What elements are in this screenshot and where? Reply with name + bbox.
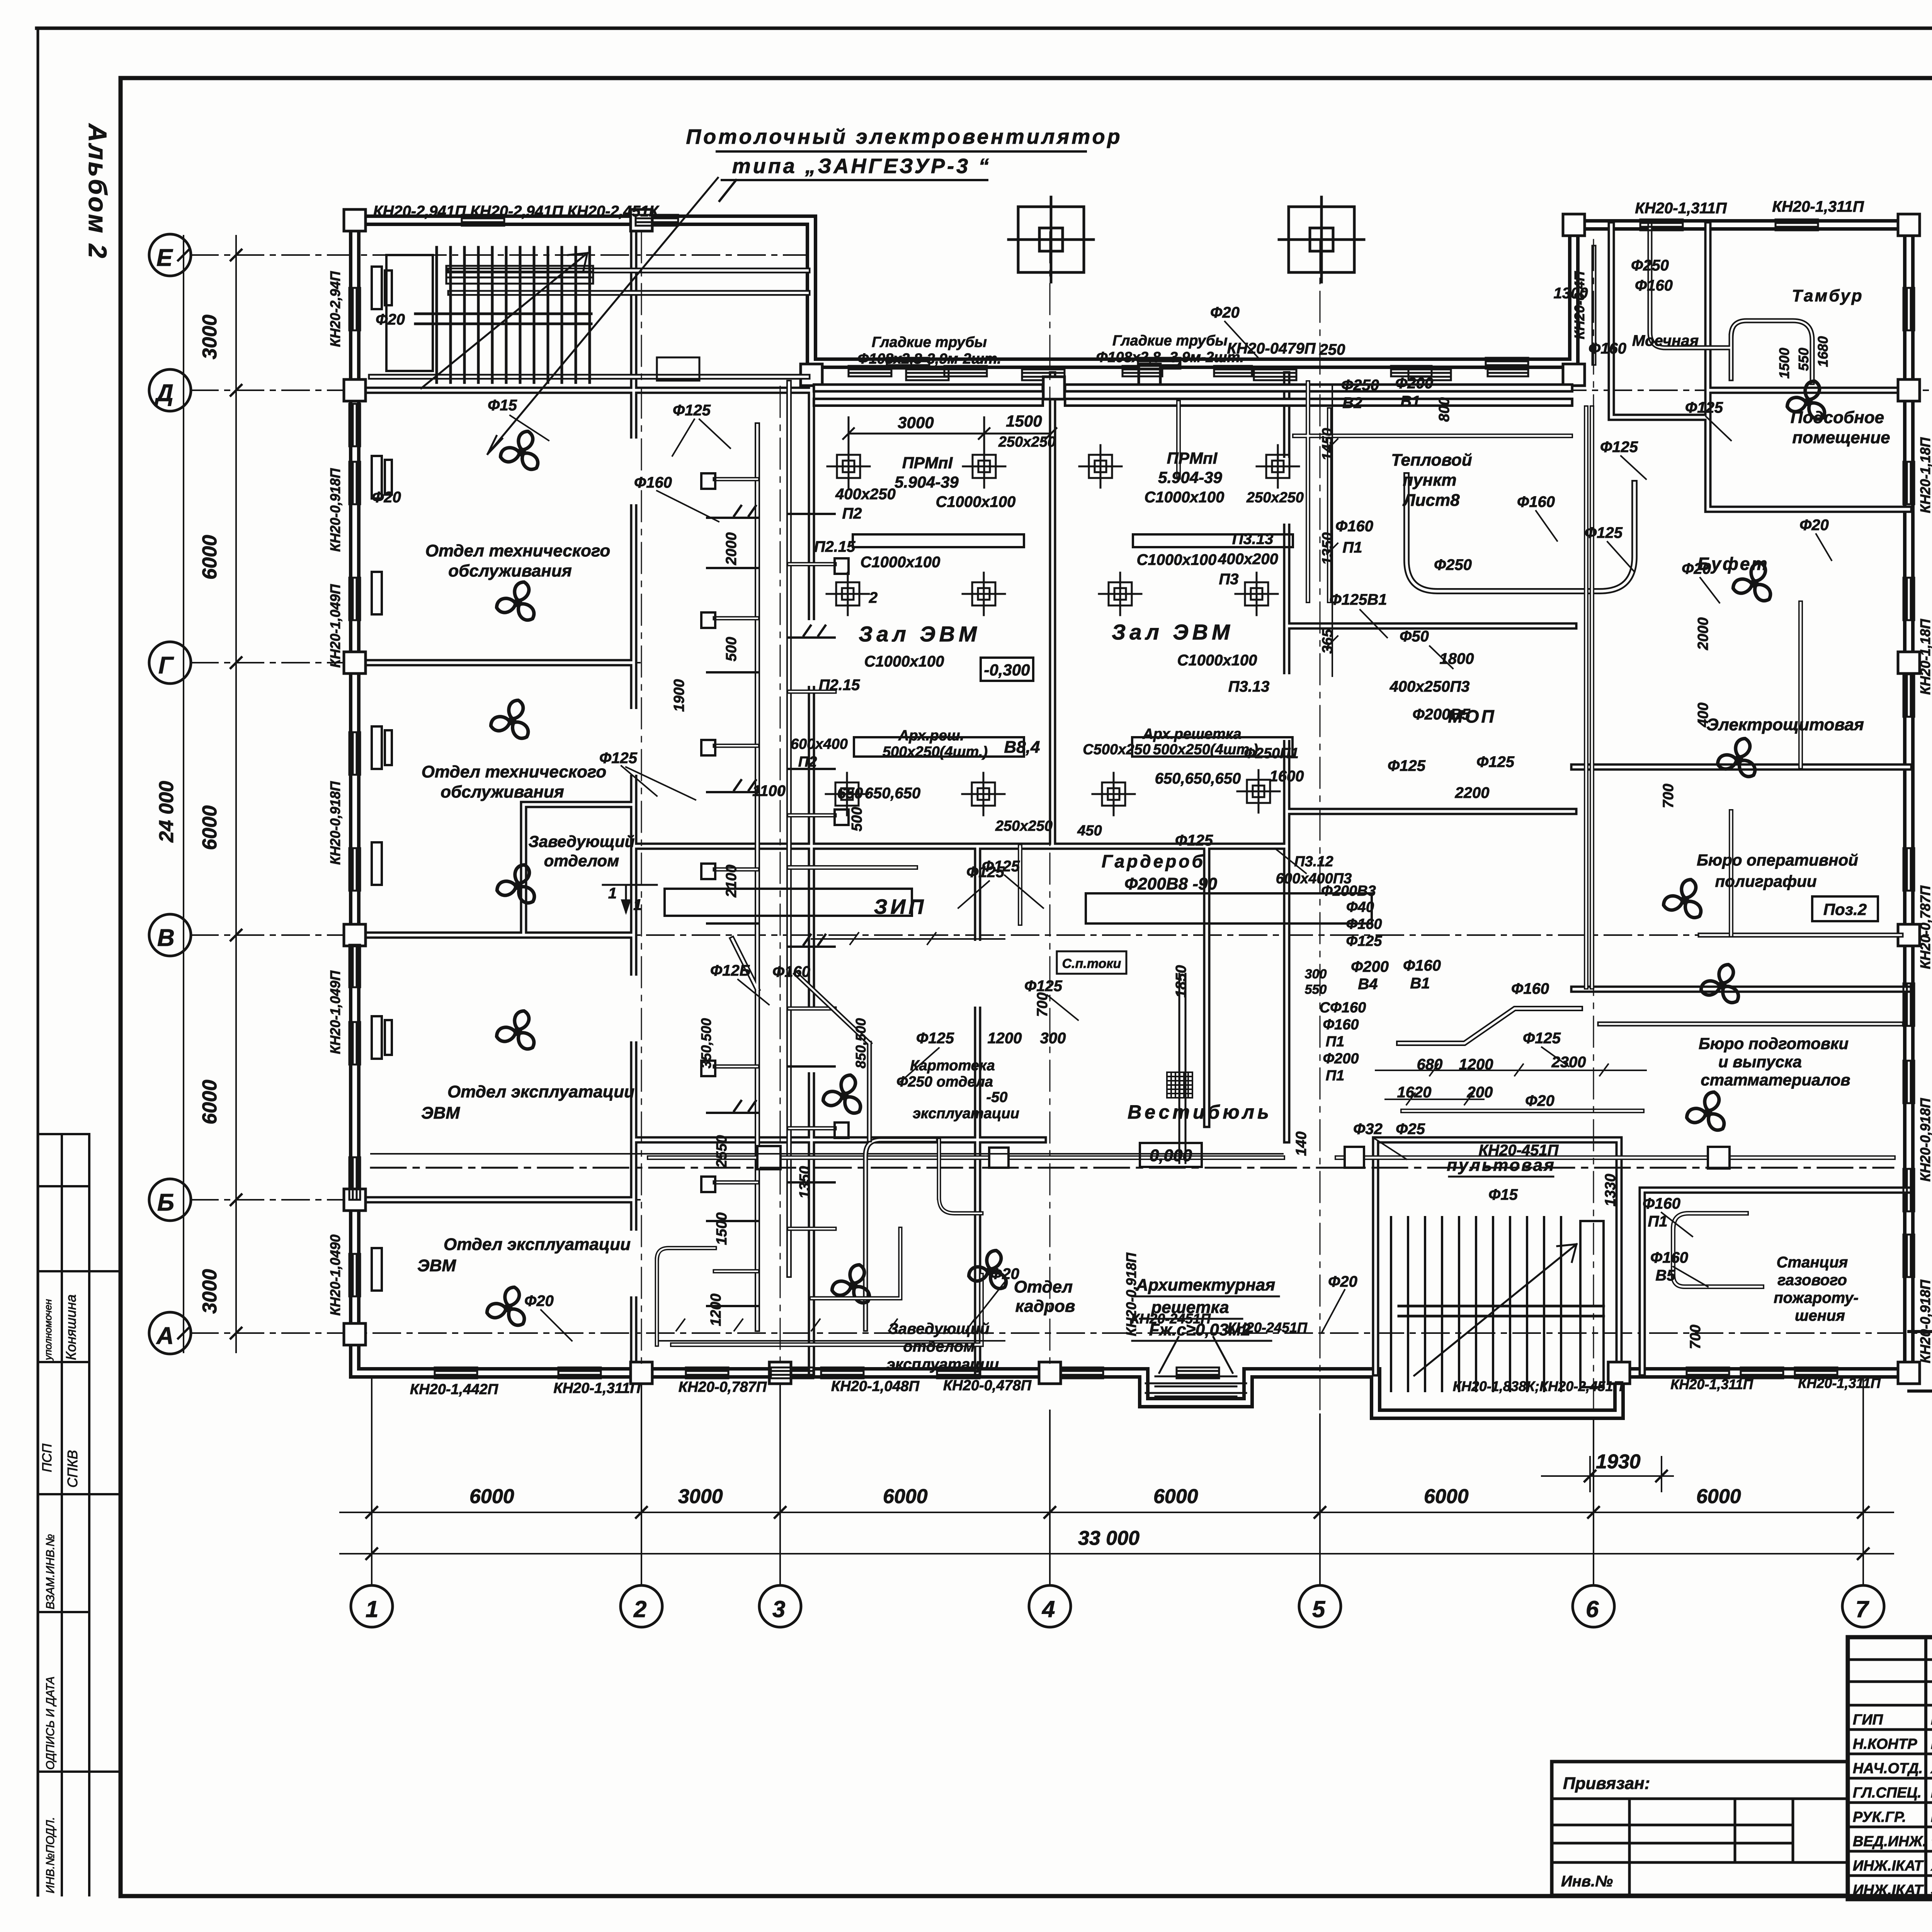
- radiators left wall: [349, 288, 360, 330]
- fan Заведующий отделом: [495, 863, 538, 906]
- svg-text:Арх.решетка: Арх.решетка: [1142, 726, 1241, 742]
- svg-text:Ф15: Ф15: [1488, 1186, 1518, 1203]
- svg-text:2300: 2300: [1551, 1054, 1586, 1071]
- svg-text:кадров: кадров: [1015, 1297, 1075, 1316]
- svg-text:отделом: отделом: [903, 1338, 975, 1355]
- bottom-right corner tab: [1909, 1332, 1932, 1391]
- гардероб duct bar: [1086, 893, 1372, 923]
- fan Подсобное: [1786, 379, 1828, 423]
- svg-text:Ф20: Ф20: [1328, 1273, 1357, 1290]
- svg-text:В2: В2: [1342, 395, 1362, 412]
- vestibule zigzag duct black: [1399, 1009, 1580, 1043]
- svg-text:С1000х100: С1000х100: [861, 554, 940, 571]
- inner dim tick rows: [657, 933, 1646, 1341]
- svg-text:Поз.2: Поз.2: [1823, 900, 1867, 918]
- svg-text:6000: 6000: [199, 805, 221, 850]
- fan Отдел кадров: [967, 1249, 1010, 1292]
- svg-text:Отдел эксплуатации: Отдел эксплуатации: [444, 1235, 631, 1254]
- svg-text:550: 550: [1796, 348, 1811, 371]
- svg-text:1350: 1350: [797, 1166, 813, 1199]
- svg-text:Тепловой: Тепловой: [1391, 451, 1472, 469]
- svg-text:1200: 1200: [708, 1294, 724, 1327]
- svg-text:2000: 2000: [1695, 617, 1711, 651]
- extra duct network white: [789, 383, 1801, 1111]
- door openings (white gaps): [634, 444, 1574, 1291]
- svg-text:П3.13: П3.13: [1228, 678, 1270, 695]
- ЗИП shelf bar: [665, 889, 912, 916]
- axis circle Е: [149, 234, 191, 276]
- entrance doors: [1159, 1337, 1233, 1373]
- column circle 5: [1299, 1585, 1341, 1627]
- svg-text:6000: 6000: [1424, 1485, 1469, 1508]
- hall grid markers row A: [827, 445, 870, 488]
- svg-text:СФ160: СФ160: [1320, 1000, 1366, 1016]
- svg-text:полиграфии: полиграфии: [1715, 872, 1817, 890]
- svg-text:КН20-0479П: КН20-0479П: [1227, 340, 1316, 357]
- fan Отдел техн.обсл 1b: [495, 580, 537, 624]
- vestibule duct diagonal: [796, 974, 869, 1140]
- TITLEBLOCK: [1552, 1637, 1932, 1900]
- svg-text:ЗИП: ЗИП: [874, 895, 927, 918]
- interior partitions black: [355, 220, 1909, 1373]
- stairwell top-left rail: [415, 314, 591, 324]
- column circle 1: [351, 1585, 393, 1627]
- svg-text:пожароту-: пожароту-: [1774, 1289, 1859, 1306]
- svg-text:Зал ЭВМ: Зал ЭВМ: [859, 622, 981, 646]
- DUCTS: [371, 225, 1901, 1396]
- svg-text:350,500: 350,500: [698, 1018, 714, 1068]
- svg-text:Отдел эксплуатации: Отдел эксплуатации: [447, 1082, 634, 1101]
- svg-text:КН20-1,049П: КН20-1,049П: [327, 584, 343, 668]
- hall1 dim line 3000/1500: [843, 417, 1056, 448]
- interior partitions white core: [355, 220, 1909, 1373]
- svg-text:П2.15: П2.15: [819, 677, 860, 694]
- svg-text:С1000х100: С1000х100: [1177, 652, 1257, 669]
- svg-text:1680: 1680: [1815, 336, 1831, 367]
- svg-text:Архитектурная: Архитектурная: [1136, 1276, 1276, 1294]
- svg-text:Ф20: Ф20: [1799, 517, 1829, 534]
- svg-text:2: 2: [633, 1596, 646, 1622]
- corridor second pipe: [371, 1153, 1283, 1155]
- left wall interior risers: [372, 267, 392, 1291]
- extra radiators: [887, 358, 929, 369]
- bottom stair landing: [1399, 1306, 1604, 1316]
- svg-text:Ф160: Ф160: [1511, 980, 1549, 997]
- svg-text:КН20-0,918П: КН20-0,918П: [327, 781, 343, 865]
- svg-text:Г: Г: [158, 652, 174, 679]
- axis circle А: [149, 1312, 191, 1354]
- svg-text:КН20-1,442П: КН20-1,442П: [410, 1381, 498, 1398]
- svg-text:Ф160: Ф160: [1643, 1195, 1680, 1212]
- names column: [1853, 1712, 1932, 1898]
- svg-text:ГЛ.СПЕЦ.: ГЛ.СПЕЦ.: [1853, 1785, 1922, 1801]
- bottom dim line total: [340, 1553, 1893, 1554]
- svg-text:650,650,650: 650,650,650: [1155, 770, 1241, 787]
- header leader line: [488, 178, 718, 454]
- svg-text:1600: 1600: [1270, 768, 1304, 785]
- svg-text:700: 700: [1034, 992, 1051, 1017]
- svg-text:КН20-0,918П: КН20-0,918П: [327, 468, 343, 552]
- elevation 0,000 box: [1140, 1143, 1202, 1167]
- svg-text:Ф200: Ф200: [1351, 958, 1389, 975]
- corridor heating main: [371, 1167, 1893, 1169]
- svg-text:Е: Е: [156, 245, 173, 271]
- recess wall radiator strips: [849, 366, 1528, 376]
- right wing horizontal duct black: [1600, 935, 1901, 1024]
- svg-text:Заведующий: Заведующий: [888, 1320, 990, 1337]
- svg-text:П1: П1: [1648, 1213, 1667, 1230]
- svg-text:В1: В1: [1410, 975, 1430, 992]
- svg-text:КН20-1,311П: КН20-1,311П: [1670, 1376, 1753, 1392]
- axis line Е: [191, 254, 808, 256]
- svg-text:Ф160: Ф160: [1588, 340, 1626, 357]
- svg-text:Ф200: Ф200: [1323, 1051, 1359, 1067]
- svg-text:400: 400: [1695, 702, 1711, 727]
- svg-text:Ф125: Ф125: [982, 858, 1020, 875]
- привязан block: [1552, 1762, 1848, 1895]
- svg-text:Гладкие трубы: Гладкие трубы: [1112, 333, 1228, 349]
- heat unit elbow duct white: [1406, 475, 1634, 591]
- stamp column dividers: [62, 1134, 89, 1895]
- svg-text:Ф20: Ф20: [372, 489, 401, 506]
- svg-text:Лист8: Лист8: [1402, 491, 1460, 510]
- svg-text:эксплуатации: эксплуатации: [913, 1105, 1019, 1122]
- wall pilaster columns: [344, 209, 1920, 1384]
- extra duct network black: [789, 383, 1801, 1111]
- svg-text:Ф25: Ф25: [1396, 1121, 1425, 1138]
- bottom-left quadrant ducts: [657, 1140, 981, 1345]
- svg-text:П3.13: П3.13: [1232, 531, 1274, 548]
- svg-text:400х250: 400х250: [835, 486, 896, 503]
- Картотека duct drop white: [866, 1140, 935, 1329]
- fan Бюро оперативной: [1662, 878, 1704, 921]
- svg-text:1450: 1450: [1320, 428, 1336, 461]
- svg-text:ПСП: ПСП: [40, 1444, 54, 1472]
- PLANTEXT: [327, 125, 1932, 1398]
- axis circle В: [149, 914, 191, 956]
- ПК hydrant box: [657, 357, 699, 381]
- svg-text:300: 300: [1305, 967, 1327, 981]
- hall grid markers row B: [827, 573, 869, 615]
- svg-text:П1: П1: [1326, 1068, 1344, 1084]
- svg-text:6000: 6000: [199, 1080, 221, 1124]
- svg-text:0,000: 0,000: [1150, 1146, 1192, 1165]
- svg-text:Коняшина: Коняшина: [63, 1294, 79, 1360]
- зал ЭВМ2 panel bar 1: [1133, 534, 1293, 547]
- svg-text:400х200: 400х200: [1218, 551, 1278, 568]
- svg-text:ЯКОВЕЦ: ЯКОВЕЦ: [1930, 1858, 1932, 1874]
- svg-text:1500: 1500: [1776, 348, 1792, 379]
- svg-text:6000: 6000: [1153, 1485, 1198, 1508]
- svg-text:Станция: Станция: [1777, 1254, 1848, 1271]
- svg-text:Б: Б: [157, 1189, 174, 1216]
- svg-text:ИНЖ.IКАТ: ИНЖ.IКАТ: [1853, 1858, 1924, 1874]
- svg-text:250х250: 250х250: [998, 434, 1056, 450]
- svg-text:Ф125: Ф125: [599, 750, 638, 767]
- svg-text:2000: 2000: [723, 532, 740, 566]
- svg-text:КН20-451П: КН20-451П: [1479, 1142, 1559, 1159]
- зал ЭВМ panel bar 2: [854, 737, 1024, 757]
- bottom stair arrow: [1414, 1244, 1577, 1376]
- svg-text:3000: 3000: [199, 315, 221, 359]
- svg-text:700: 700: [1687, 1325, 1704, 1349]
- зал ЭВМ2 panel bar 2: [1132, 737, 1293, 757]
- station duct bottom right black: [1673, 1213, 1762, 1287]
- svg-text:Тамбур: Тамбур: [1792, 286, 1863, 305]
- svg-text:Ф125В1: Ф125В1: [1329, 591, 1387, 608]
- svg-text:Д: Д: [154, 380, 173, 406]
- svg-text:КН20-1,311П: КН20-1,311П: [553, 1380, 641, 1396]
- svg-text:600х400: 600х400: [791, 736, 848, 752]
- column circle 3: [759, 1585, 801, 1627]
- station duct bottom right white: [1673, 1213, 1762, 1287]
- svg-text:ГИП: ГИП: [1853, 1712, 1883, 1728]
- svg-text:6000: 6000: [199, 535, 221, 580]
- svg-text:300: 300: [1040, 1030, 1066, 1047]
- exterior wall outline black: [355, 220, 1909, 1414]
- svg-text:Ф200: Ф200: [1395, 375, 1433, 392]
- column centerlines through plan: [641, 232, 1594, 1430]
- svg-text:С.п.токи: С.п.токи: [1062, 956, 1121, 971]
- stairwell radiator block: [446, 266, 593, 284]
- svg-text:Подсобное: Подсобное: [1791, 408, 1884, 427]
- svg-text:650,650: 650,650: [865, 785, 921, 802]
- svg-text:уполномочен: уполномочен: [42, 1299, 54, 1361]
- svg-text:П1: П1: [1326, 1034, 1344, 1050]
- radiators bottom wall: [435, 1367, 477, 1378]
- left dim chain line inner: [235, 236, 237, 1352]
- svg-text:П3: П3: [1219, 571, 1238, 588]
- svg-text:ПРМпI: ПРМпI: [902, 454, 953, 472]
- fan Буфет: [1731, 561, 1774, 604]
- svg-text:КН20-0,4П: КН20-0,4П: [1571, 271, 1587, 339]
- svg-text:Ф160: Ф160: [1635, 277, 1673, 294]
- svg-text:Гладкие трубы: Гладкие трубы: [872, 334, 987, 350]
- sheet outer left border: [37, 28, 39, 1895]
- svg-text:250: 250: [1319, 341, 1345, 358]
- svg-text:Ф20: Ф20: [1210, 304, 1240, 321]
- bottom dim line segments: [340, 1512, 1893, 1513]
- svg-text:Ф20: Ф20: [524, 1293, 554, 1310]
- svg-text:140: 140: [1293, 1131, 1310, 1156]
- svg-text:1620: 1620: [1397, 1084, 1432, 1101]
- svg-text:Ф250: Ф250: [1631, 257, 1669, 274]
- svg-text:1500: 1500: [714, 1213, 730, 1245]
- svg-text:200: 200: [1467, 1084, 1493, 1101]
- svg-text:6000: 6000: [1696, 1485, 1741, 1508]
- svg-text:статматериалов: статматериалов: [1701, 1071, 1850, 1089]
- column marker big 1: [1009, 197, 1094, 282]
- stamp left rows: [1848, 1660, 1932, 1876]
- svg-text:Ф108х2,8-3,9м-2шт.: Ф108х2,8-3,9м-2шт.: [857, 351, 1001, 367]
- svg-text:850,500: 850,500: [853, 1018, 869, 1068]
- svg-text:КН20-0,478П: КН20-0,478П: [943, 1378, 1032, 1394]
- svg-text:КН20-2451П: КН20-2451П: [1228, 1320, 1308, 1335]
- svg-text:В8,4: В8,4: [1004, 738, 1040, 757]
- label С.п.токи box: [1057, 951, 1126, 974]
- svg-text:отделом: отделом: [544, 852, 619, 870]
- svg-text:500х250(4шт.): 500х250(4шт.): [1153, 742, 1258, 758]
- svg-text:С1000х100: С1000х100: [1145, 489, 1225, 506]
- svg-text:КН20-2,94П: КН20-2,94П: [327, 271, 343, 347]
- svg-text:Ф250: Ф250: [1341, 377, 1379, 394]
- svg-text:Ф20: Ф20: [1525, 1092, 1554, 1109]
- svg-text:1330: 1330: [1602, 1174, 1619, 1207]
- column circle 6: [1573, 1585, 1614, 1627]
- svg-text:550: 550: [1305, 982, 1327, 997]
- svg-text:700: 700: [1660, 784, 1677, 808]
- svg-text:Ф250 отдела: Ф250 отдела: [896, 1074, 993, 1090]
- stairwell top-left treads: [437, 247, 590, 383]
- header underlines: [717, 151, 1086, 201]
- svg-text:Ф250: Ф250: [1434, 556, 1472, 573]
- column circle 7: [1842, 1585, 1884, 1627]
- svg-text:Ф20: Ф20: [376, 311, 405, 328]
- svg-text:КН20-0,787П: КН20-0,787П: [1917, 885, 1932, 969]
- entrance porch steps: [1146, 1383, 1246, 1393]
- svg-text:3000: 3000: [199, 1269, 221, 1314]
- svg-text:КН20-1,311П: КН20-1,311П: [1772, 198, 1864, 215]
- top-left stair supply duct black: [371, 270, 808, 377]
- svg-text:5.904-39: 5.904-39: [1158, 468, 1222, 486]
- AXES: [149, 234, 1928, 1627]
- svg-text:П2: П2: [842, 505, 862, 522]
- svg-text:КН20-1,838К;КН20-2,451П: КН20-1,838К;КН20-2,451П: [1453, 1378, 1624, 1394]
- svg-text:Ф125: Ф125: [673, 402, 711, 419]
- svg-text:КН20-0,918П: КН20-0,918П: [1917, 1098, 1932, 1182]
- column circle 2: [621, 1585, 662, 1627]
- svg-text:Ф125: Ф125: [916, 1030, 954, 1047]
- fan Отдел экспл ЭВМ: [495, 1009, 537, 1053]
- svg-text:С1000х100: С1000х100: [936, 493, 1016, 510]
- svg-text:500: 500: [723, 637, 740, 661]
- svg-text:ОДПИСЬ И ДАТА: ОДПИСЬ И ДАТА: [44, 1677, 57, 1770]
- left dim ticks: [178, 250, 241, 1338]
- svg-text:1350: 1350: [1320, 532, 1336, 565]
- svg-text:пункт: пункт: [1403, 471, 1456, 490]
- svg-text:Электрощитовая: Электрощитовая: [1706, 715, 1864, 734]
- svg-text:КН20-1,18П: КН20-1,18П: [1917, 437, 1932, 513]
- svg-text:Привязан:: Привязан:: [1563, 1774, 1650, 1793]
- порч inner lines: [1155, 1376, 1236, 1396]
- svg-text:эксплуатации: эксплуатации: [887, 1356, 999, 1373]
- stamp vertical lines: [1926, 1637, 1932, 1899]
- top middle twin duct run black: [817, 388, 1569, 402]
- svg-text:Инв.№: Инв.№: [1561, 1873, 1613, 1890]
- top middle twin duct run white: [817, 388, 1569, 402]
- svg-text:Ф125: Ф125: [1600, 439, 1638, 456]
- svg-text:ВЗАМ.ИНВ.№: ВЗАМ.ИНВ.№: [44, 1534, 57, 1609]
- svg-text:ИНЖ.IКАТ: ИНЖ.IКАТ: [1853, 1882, 1924, 1898]
- svg-text:Ф160: Ф160: [1323, 1017, 1359, 1033]
- зал ЭВМ panel bar 1: [853, 534, 1024, 547]
- svg-text:Ф125: Ф125: [1388, 757, 1426, 774]
- corridor duct run black: [649, 1155, 1893, 1160]
- axis line В: [191, 934, 1928, 936]
- svg-text:450: 450: [1077, 823, 1102, 839]
- svg-text:и выпуска: и выпуска: [1718, 1053, 1802, 1071]
- duct jog box at column 4: [1043, 377, 1065, 399]
- svg-text:650: 650: [837, 785, 863, 802]
- svg-text:Н.КОНТР: Н.КОНТР: [1853, 1736, 1917, 1752]
- exterior wall outline white core: [355, 220, 1909, 1414]
- svg-text:Арх.реш.: Арх.реш.: [898, 728, 964, 744]
- fan Электрощитовая: [1716, 737, 1759, 780]
- svg-text:Ф125: Ф125: [1685, 399, 1723, 416]
- riser branch stubs: [715, 479, 835, 1271]
- svg-text:1850: 1850: [1173, 965, 1189, 998]
- fan Картотека: [821, 1073, 864, 1117]
- bottom column extension lines: [372, 1376, 1863, 1585]
- stairwell arrow: [421, 253, 587, 388]
- svg-text:3: 3: [772, 1596, 785, 1622]
- fan Отдел экспл ЭВМ 2: [485, 1286, 528, 1329]
- svg-text:С1000х100: С1000х100: [864, 653, 944, 670]
- svg-text:ИНВ.№ПОДЛ.: ИНВ.№ПОДЛ.: [44, 1817, 57, 1893]
- axis line Д: [191, 389, 1928, 391]
- label Поз.2 box: [1812, 896, 1878, 921]
- axis line Б: [191, 1199, 641, 1201]
- тамбур vertical duct black: [1594, 225, 1812, 383]
- chase fittings: [701, 473, 849, 1306]
- svg-text:1930: 1930: [1596, 1451, 1641, 1473]
- svg-text:Ф160: Ф160: [1650, 1249, 1688, 1266]
- svg-text:А: А: [156, 1323, 174, 1349]
- svg-text:1500: 1500: [1006, 412, 1042, 430]
- svg-text:4: 4: [1042, 1596, 1055, 1622]
- left vertical riser chase black: [732, 383, 789, 1329]
- fan Бюро подготовки 1: [1699, 963, 1742, 1006]
- architectural grille grid: [1167, 1072, 1192, 1098]
- svg-text:Отдел технического: Отдел технического: [422, 762, 607, 781]
- bottom dim ticks: [366, 1507, 1869, 1559]
- svg-text:ПРМпI: ПРМпI: [1167, 449, 1218, 467]
- Картотека duct drop black: [866, 1140, 935, 1329]
- svg-text:КН20-1,048П: КН20-1,048П: [831, 1378, 920, 1395]
- svg-text:250х250: 250х250: [995, 818, 1053, 834]
- vestibule zigzag duct white: [1399, 1009, 1580, 1043]
- svg-text:Ф32: Ф32: [1353, 1121, 1383, 1138]
- svg-text:Ф125: Ф125: [1476, 753, 1515, 770]
- svg-text:3000: 3000: [678, 1485, 723, 1508]
- svg-text:НАЧ.ОТД.: НАЧ.ОТД.: [1853, 1760, 1923, 1777]
- svg-text:Ф200В8 -90: Ф200В8 -90: [1124, 874, 1217, 893]
- svg-text:Ф125: Ф125: [1523, 1030, 1561, 1047]
- main stamp outer box: [1848, 1637, 1932, 1899]
- svg-text:1: 1: [366, 1596, 378, 1622]
- svg-text:Ф125: Ф125: [1585, 524, 1623, 541]
- svg-text:Моечная: Моечная: [1632, 332, 1699, 349]
- svg-text:1200: 1200: [988, 1030, 1022, 1047]
- svg-text:2: 2: [869, 589, 878, 606]
- axis circle Д: [149, 369, 191, 411]
- axis line А: [191, 1332, 1928, 1334]
- svg-text:6000: 6000: [469, 1485, 514, 1508]
- column marker big 2: [1279, 197, 1364, 282]
- svg-text:В1: В1: [1400, 393, 1420, 410]
- svg-text:КН20-2,941П КН20-2,941П КН20-2: КН20-2,941П КН20-2,941П КН20-2,451К: [373, 203, 660, 220]
- svg-text:Ф20: Ф20: [1682, 560, 1711, 577]
- left vertical riser chase white: [732, 383, 789, 1329]
- svg-text:6000: 6000: [883, 1485, 928, 1508]
- svg-text:ЭВМ: ЭВМ: [417, 1256, 456, 1275]
- axis circle Г: [149, 642, 191, 684]
- hall grid markers row C: [826, 773, 868, 815]
- svg-text:6: 6: [1586, 1596, 1599, 1622]
- svg-text:КН20-0,918П: КН20-0,918П: [1917, 1279, 1932, 1363]
- vestibule vertical risers: [1179, 974, 1185, 1163]
- svg-text:Ф160: Ф160: [1517, 493, 1555, 510]
